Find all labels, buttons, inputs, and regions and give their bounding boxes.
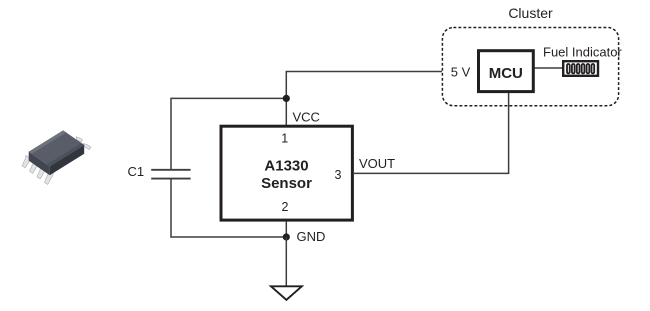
front-left face — [29, 152, 50, 175]
wire: VCC junction up and right to 5V entry of cluster — [286, 72, 442, 99]
junction dot: GND node — [283, 233, 290, 240]
svg-text:Sensor: Sensor — [261, 175, 312, 192]
cluster dashed boundary — [442, 28, 618, 106]
IC package illustration — [22, 130, 91, 184]
wire: sensor pin 2 down to GND junction — [285, 221, 287, 237]
front-right face — [50, 145, 84, 175]
capacitor C1 — [151, 170, 190, 179]
wire: capacitor bottom plate down and right to GND junction — [171, 179, 286, 237]
sensor box A1330 U1 — [221, 126, 352, 220]
svg-text:C1: C1 — [128, 164, 145, 179]
svg-text:GND: GND — [297, 229, 326, 244]
wire: capacitor top plate up and right to VCC junction — [171, 98, 286, 169]
bevel lower edge of top face — [47, 143, 84, 166]
svg-text:2: 2 — [282, 200, 289, 214]
svg-text:VCC: VCC — [293, 110, 320, 125]
junction dot: VCC node — [283, 95, 290, 102]
svg-text:Cluster: Cluster — [508, 5, 553, 21]
ground symbol — [271, 286, 302, 300]
fuel indicator icon — [563, 61, 598, 76]
svg-text:3: 3 — [335, 168, 342, 182]
MCU box U2 — [479, 51, 534, 92]
svg-text:MCU: MCU — [489, 65, 523, 82]
wire: VOUT from sensor pin 3 right then up to MCU bottom — [353, 92, 509, 173]
pins back (2) — [76, 137, 91, 150]
top face — [29, 130, 84, 166]
wire: GND junction down to ground symbol — [285, 237, 287, 286]
svg-text:5 V: 5 V — [451, 65, 471, 80]
svg-text:Fuel Indicator: Fuel Indicator — [543, 45, 622, 60]
wire: MCU right to fuel indicator — [535, 67, 563, 69]
svg-text:1: 1 — [281, 132, 288, 146]
pins front (4) — [22, 156, 53, 185]
svg-text:VOUT: VOUT — [359, 156, 395, 171]
bevel top edge highlight — [29, 130, 66, 154]
svg-text:A1330: A1330 — [264, 158, 308, 175]
wire: VCC junction down to sensor pin 1 — [285, 98, 287, 126]
